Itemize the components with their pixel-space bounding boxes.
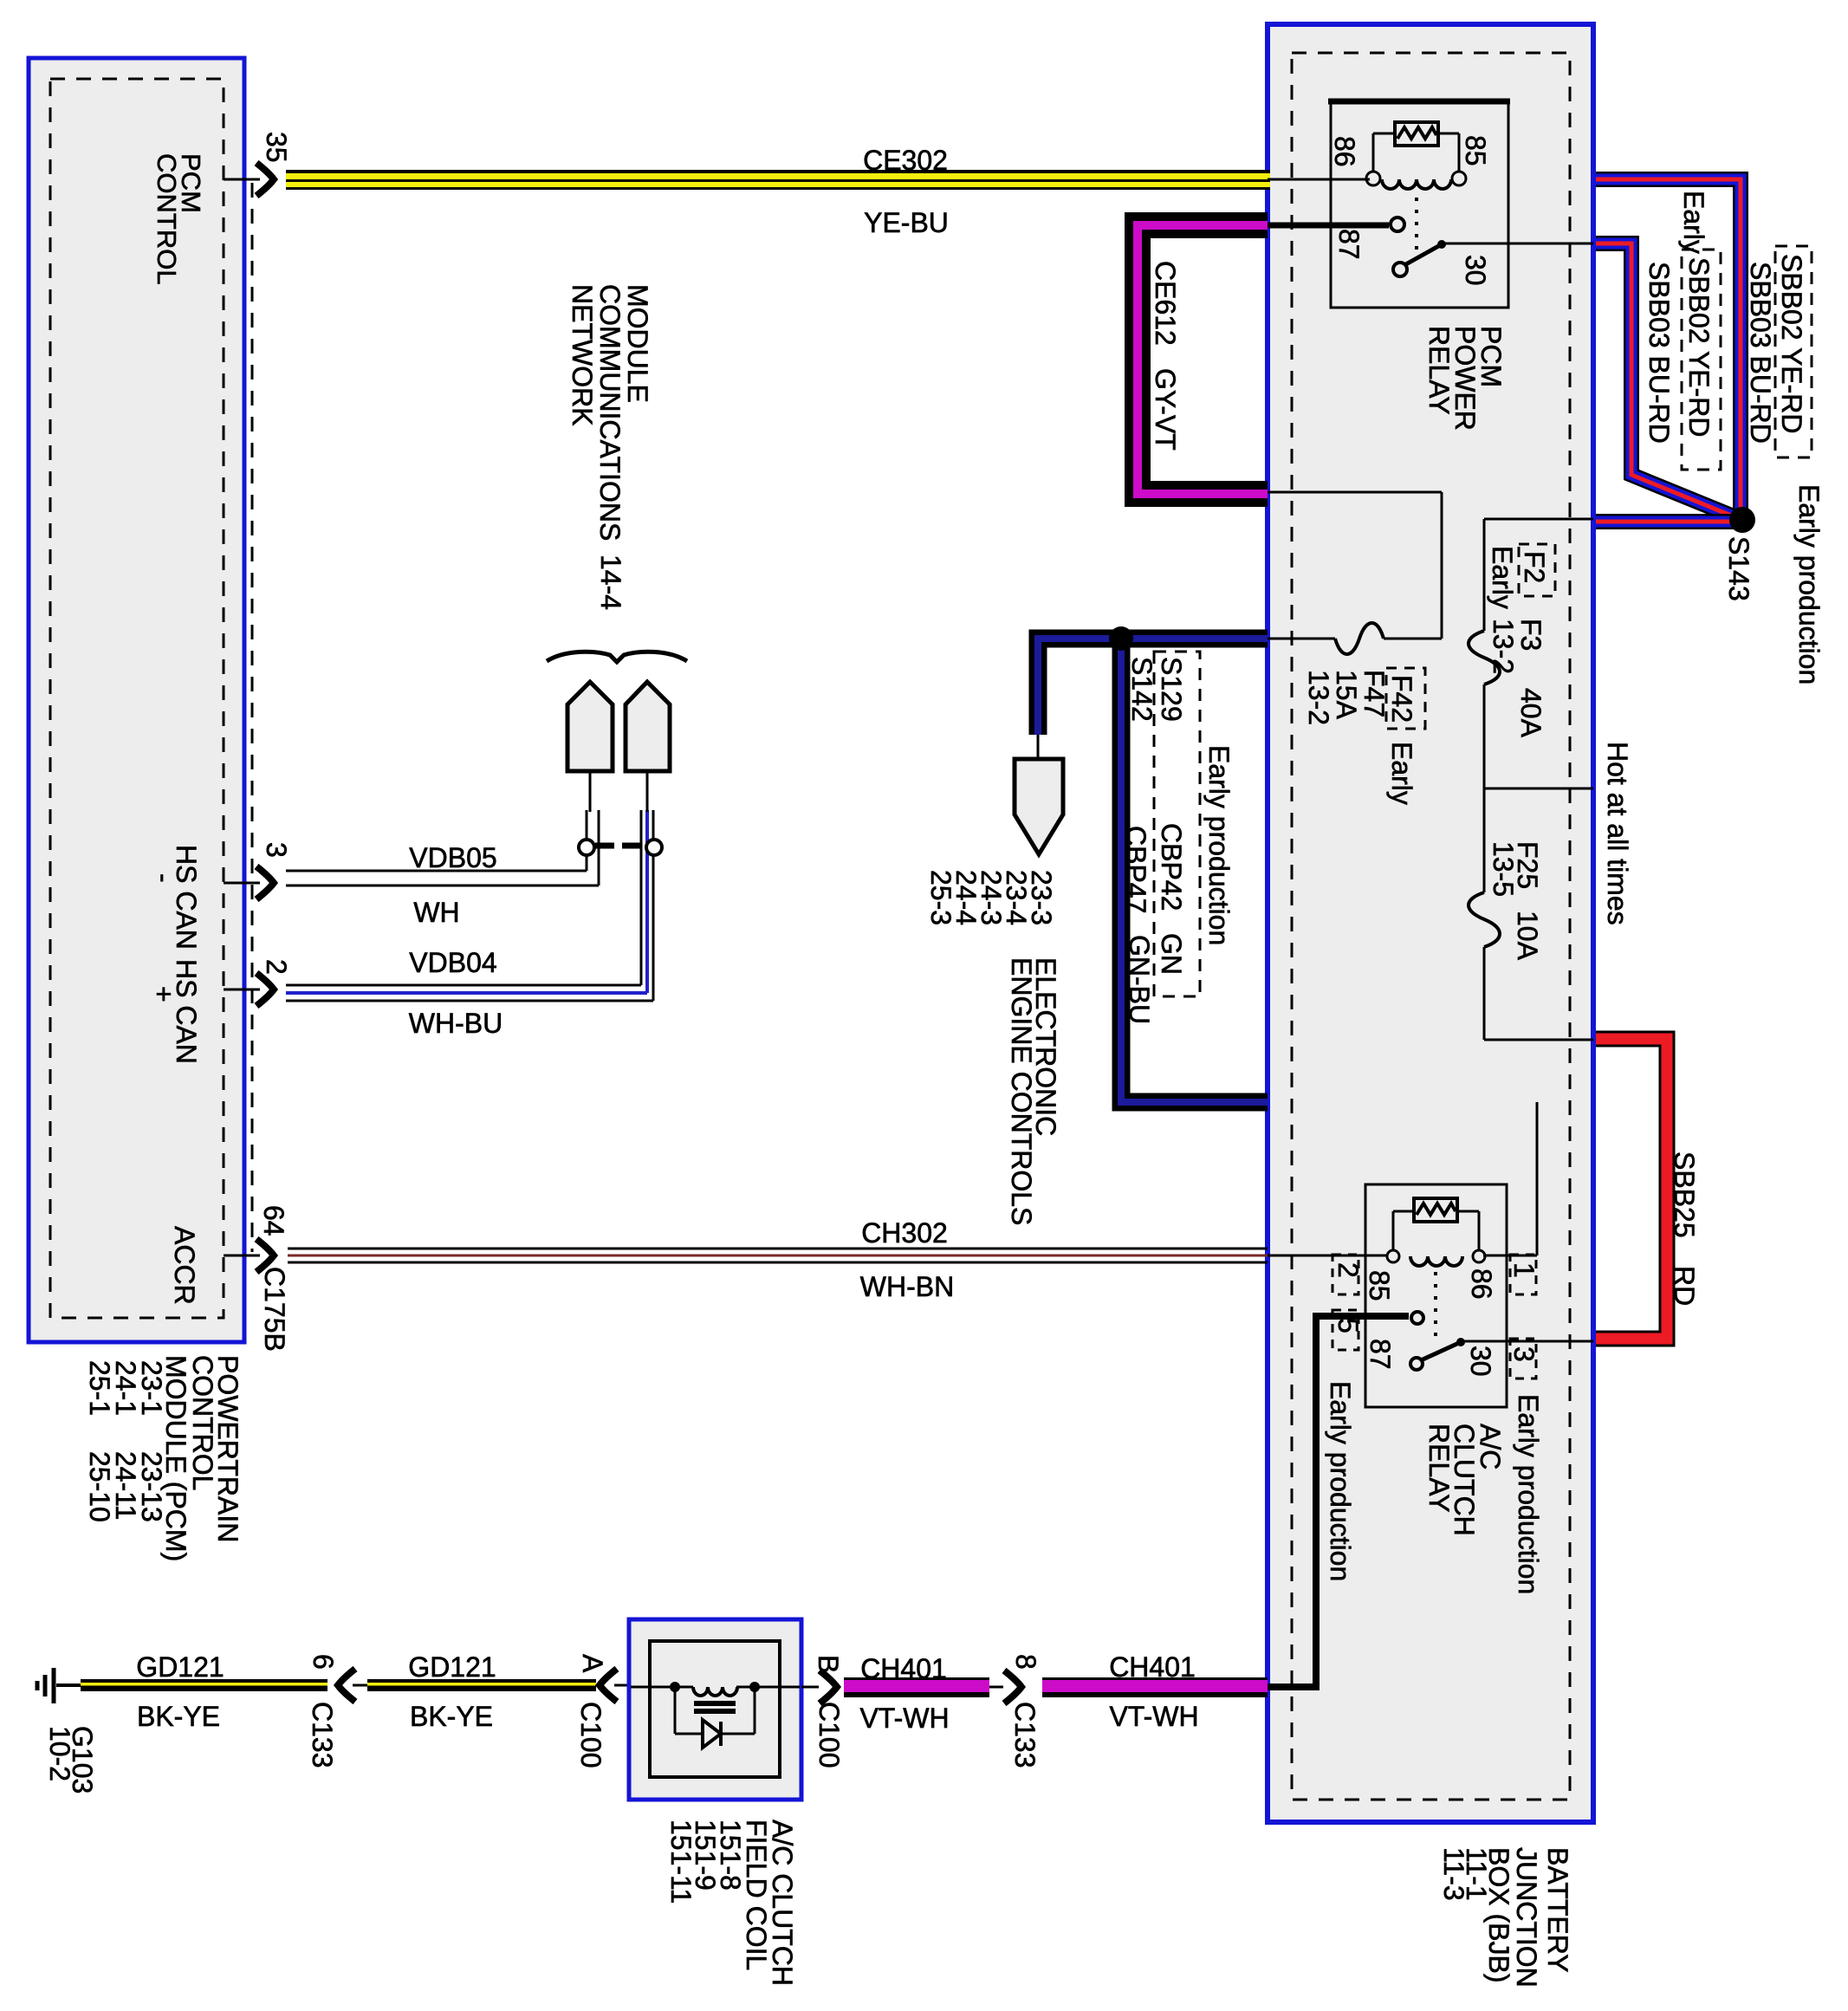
- svg-text:NETWORK: NETWORK: [567, 284, 598, 426]
- svg-text:F3: F3: [1515, 619, 1546, 651]
- fuse F3 to bus line: [1484, 788, 1593, 790]
- svg-text:86: 86: [1329, 136, 1360, 167]
- svg-text:Early production: Early production: [1325, 1381, 1356, 1581]
- svg-text:C100: C100: [575, 1702, 606, 1768]
- relay switch blade: [1393, 263, 1407, 276]
- module communications network dashed boundary: [251, 183, 254, 1252]
- labels F2 F3 40A 13-2: [1519, 544, 1555, 596]
- svg-text:87: 87: [1365, 1339, 1396, 1370]
- svg-text:2: 2: [1333, 1262, 1364, 1278]
- AC relay pin 87 terminal: [1411, 1312, 1423, 1324]
- battery junction box BJB: [1268, 24, 1593, 1822]
- connector C100 pin A arrow: [600, 1669, 617, 1702]
- wire CH302 WH-BN: [288, 1248, 1268, 1250]
- wire VDB04 WH-BU triple: [286, 984, 641, 987]
- svg-text:Hot at all times: Hot at all times: [1602, 742, 1633, 925]
- wire CBP47 to pigtail: [1038, 639, 1121, 735]
- wire SBB02/SBB03 lower (pin 30): [1596, 243, 1735, 517]
- svg-text:5: 5: [1333, 1318, 1364, 1333]
- wire CBP47 GN-BU into BJB: [1121, 630, 1268, 648]
- pin 3 connector arrow: [256, 866, 274, 899]
- diode loop wires: [674, 1687, 677, 1734]
- svg-text:13-2: 13-2: [1303, 670, 1334, 725]
- labels F42 F47 15A 13-2: [1386, 668, 1425, 729]
- svg-text:C133: C133: [1009, 1702, 1041, 1768]
- svg-text:RD: RD: [1669, 1266, 1700, 1306]
- svg-text:GN: GN: [1156, 933, 1187, 975]
- svg-text:CONTROL: CONTROL: [152, 153, 182, 285]
- wire SBB02/SBB03 upper (coil feed): [1596, 179, 1741, 513]
- svg-text:CE302: CE302: [863, 145, 948, 176]
- svg-text:SBB02 YE-RD: SBB02 YE-RD: [1776, 254, 1807, 434]
- svg-text:S142: S142: [1126, 657, 1157, 722]
- wire from splice into BJB: [1596, 514, 1740, 529]
- svg-text:BK-YE: BK-YE: [137, 1701, 220, 1732]
- pigtail connector (engine controls): [1037, 735, 1040, 759]
- svg-text:SBB03 BU-RD: SBB03 BU-RD: [1644, 262, 1675, 444]
- fuse F25 output line: [1484, 1039, 1593, 1041]
- svg-text:Early: Early: [1487, 546, 1518, 609]
- inline connector symbol: [595, 843, 645, 849]
- svg-text:SBB02 YE-RD: SBB02 YE-RD: [1683, 257, 1715, 438]
- AC relay coil U2: [1387, 1250, 1399, 1262]
- PCM inner dashed boundary: [50, 79, 224, 1318]
- labels SBB02 YE-RD boxed (wire1): [1775, 246, 1812, 457]
- svg-text:Early production: Early production: [1203, 745, 1235, 945]
- svg-text:10-2: 10-2: [44, 1726, 75, 1781]
- wire CH401 VT-WH (BJB side): [1042, 1677, 1268, 1697]
- fuse F25 element: [1483, 788, 1486, 892]
- svg-text:Early: Early: [1678, 191, 1709, 254]
- svg-text:CH302: CH302: [861, 1217, 948, 1249]
- AC relay pin 3 label: [1510, 1339, 1536, 1379]
- svg-text:RELAY: RELAY: [1423, 326, 1455, 415]
- svg-text:64: 64: [258, 1205, 289, 1236]
- svg-text:JUNCTION: JUNCTION: [1511, 1847, 1542, 1988]
- svg-text:87: 87: [1333, 229, 1365, 260]
- svg-text:B: B: [813, 1655, 844, 1673]
- twisted pair brace: [547, 652, 687, 662]
- wire GD121 BK-YE (ground side): [81, 1679, 327, 1691]
- relay suppression resistor: [1372, 133, 1375, 172]
- relay armature dotted link: [1415, 198, 1418, 250]
- splice S143: [1729, 507, 1755, 533]
- PCM power relay box: [1331, 101, 1508, 308]
- field coil feed line: [631, 1686, 693, 1689]
- pin 2 stub wire: [224, 989, 260, 991]
- wire GD121 BK-YE (coil side): [367, 1679, 596, 1691]
- svg-text:151-11: 151-11: [665, 1820, 697, 1904]
- AC relay suppression resistor: [1392, 1211, 1395, 1250]
- svg-text:25-3: 25-3: [925, 870, 956, 925]
- svg-text:3: 3: [261, 842, 292, 858]
- svg-text:-: -: [148, 873, 179, 883]
- diode D1: [703, 1720, 721, 1748]
- svg-text:F47: F47: [1358, 670, 1390, 717]
- svg-text:HS CAN: HS CAN: [171, 845, 202, 950]
- relay pin 30 wire: [1442, 243, 1593, 245]
- svg-text:2: 2: [261, 959, 292, 975]
- AC clutch relay box: [1365, 1184, 1507, 1407]
- connector C133 pin 8 arrow: [989, 1686, 1003, 1689]
- svg-text:GN-BU: GN-BU: [1124, 935, 1155, 1024]
- pin 35 stub wire: [224, 178, 260, 181]
- pin 2 connector arrow: [256, 973, 274, 1006]
- svg-text:CH401: CH401: [1109, 1651, 1196, 1683]
- svg-text:C133: C133: [307, 1702, 338, 1768]
- early production dashed box: [1154, 652, 1200, 996]
- svg-text:40A: 40A: [1515, 688, 1546, 738]
- svg-text:A: A: [577, 1654, 608, 1673]
- svg-text:F2: F2: [1519, 551, 1550, 583]
- svg-text:WH-BU: WH-BU: [409, 1008, 503, 1039]
- AC relay armature dotted link: [1434, 1272, 1437, 1339]
- svg-text:86: 86: [1466, 1268, 1497, 1300]
- field coil junction dots: [670, 1682, 680, 1692]
- svg-text:VT-WH: VT-WH: [1109, 1701, 1198, 1732]
- svg-text:HS CAN: HS CAN: [171, 959, 202, 1064]
- svg-text:VDB04: VDB04: [409, 947, 496, 978]
- relay pin 87 terminal: [1391, 217, 1404, 231]
- fuse F47 wire with element: [1384, 638, 1442, 640]
- wire SBB25 RD: [1596, 1039, 1667, 1339]
- fuse F3 box feed line: [1484, 518, 1593, 521]
- svg-text:SBB03 BU-RD: SBB03 BU-RD: [1745, 262, 1776, 444]
- svg-text:85: 85: [1364, 1270, 1395, 1301]
- AC relay pin 87 down wire: [1313, 1313, 1320, 1690]
- svg-text:CBP47: CBP47: [1120, 826, 1151, 913]
- AC relay pin 87 wire: [1316, 1313, 1409, 1320]
- pin 64 connector arrow: [256, 1239, 274, 1272]
- pin 35 connector arrow: [256, 163, 274, 196]
- relay coil U1: [1366, 172, 1380, 185]
- svg-text:Early production: Early production: [1513, 1394, 1544, 1594]
- svg-text:Early: Early: [1386, 742, 1417, 805]
- field coil inner box: [650, 1641, 780, 1777]
- svg-text:RELAY: RELAY: [1423, 1424, 1455, 1513]
- connector pigtail right: [626, 682, 670, 771]
- svg-text:VDB05: VDB05: [409, 842, 496, 873]
- svg-text:3: 3: [1508, 1346, 1540, 1362]
- fuse F3 element: [1483, 519, 1486, 631]
- AC relay coil feed from CH302: [1268, 1255, 1387, 1257]
- svg-text:10A: 10A: [1512, 911, 1543, 961]
- svg-text:15A: 15A: [1331, 670, 1362, 720]
- svg-text:14-4: 14-4: [595, 555, 626, 610]
- AC relay pin 1 label: [1510, 1255, 1536, 1294]
- pin 3 stub wire: [224, 882, 260, 885]
- svg-text:C175B: C175B: [259, 1267, 290, 1352]
- svg-text:8: 8: [1010, 1654, 1041, 1670]
- ground G103: [56, 1683, 82, 1687]
- svg-text:GD121: GD121: [136, 1651, 224, 1683]
- connector C133 pin 6 arrow: [338, 1669, 355, 1702]
- relay pin 87 wire: [1268, 223, 1389, 229]
- svg-text:30: 30: [1465, 1346, 1496, 1377]
- svg-text:COMMUNICATIONS: COMMUNICATIONS: [594, 284, 626, 541]
- svg-text:S143: S143: [1723, 536, 1754, 601]
- svg-text:WH: WH: [413, 897, 459, 928]
- svg-text:35: 35: [261, 132, 292, 163]
- AC clutch field coil box: [629, 1619, 801, 1800]
- svg-text:F42: F42: [1386, 675, 1417, 723]
- svg-text:SBB25: SBB25: [1669, 1151, 1700, 1238]
- svg-text:MODULE: MODULE: [622, 284, 653, 403]
- svg-text:GD121: GD121: [408, 1651, 496, 1683]
- svg-text:1: 1: [1508, 1262, 1540, 1278]
- connector pigtail left: [567, 682, 613, 771]
- svg-text:YE-BU: YE-BU: [864, 207, 949, 238]
- wire CE302 YE-BU yellow: [286, 170, 1270, 190]
- svg-text:25-1: 25-1: [84, 1360, 115, 1416]
- field coil core bars: [694, 1701, 736, 1706]
- relay coil feed line: [1268, 178, 1370, 181]
- splice S142: [1109, 626, 1133, 651]
- svg-text:25-10: 25-10: [84, 1451, 115, 1522]
- pin 64 stub wire: [224, 1255, 260, 1257]
- svg-text:CE612: CE612: [1150, 261, 1181, 346]
- AC relay switch blade: [1410, 1358, 1423, 1370]
- AC relay pin 2 label: [1333, 1255, 1358, 1294]
- wire CE612 GY-VT magenta loop: [1138, 225, 1268, 494]
- wire VDB05 WH pair: [286, 870, 587, 873]
- connector B arrow: [801, 1686, 819, 1689]
- wire CBP47 down to BJB lower: [1121, 639, 1268, 1102]
- svg-text:85: 85: [1460, 135, 1491, 166]
- svg-text:BK-YE: BK-YE: [410, 1701, 493, 1732]
- svg-text:Early production: Early production: [1793, 484, 1825, 684]
- svg-text:GY-VT: GY-VT: [1150, 368, 1181, 451]
- labels SBB02 YE-RD boxed (wire2): [1682, 250, 1721, 470]
- wire from CE612 to fuse F47: [1268, 491, 1442, 494]
- svg-text:BATTERY: BATTERY: [1542, 1847, 1573, 1973]
- svg-text:6: 6: [308, 1654, 339, 1670]
- AC relay pin 5 label: [1333, 1310, 1358, 1350]
- svg-text:13-5: 13-5: [1488, 841, 1519, 897]
- AC relay coil to navy wire link: [1483, 1255, 1537, 1257]
- svg-text:WH-BN: WH-BN: [860, 1271, 954, 1302]
- svg-text:C100: C100: [814, 1702, 845, 1768]
- field coil inductor L1: [693, 1687, 737, 1696]
- svg-text:CH401: CH401: [860, 1653, 947, 1684]
- BJB inner dashed boundary: [1292, 53, 1570, 1800]
- AC relay pin 30 wire: [1461, 1340, 1593, 1343]
- svg-text:S129: S129: [1156, 657, 1187, 722]
- svg-text:13-2: 13-2: [1488, 619, 1519, 674]
- svg-text:VT-WH: VT-WH: [859, 1703, 949, 1734]
- svg-text:CBP42: CBP42: [1156, 823, 1187, 911]
- svg-text:30: 30: [1460, 255, 1491, 286]
- PCM module box: [29, 58, 244, 1342]
- svg-text:ENGINE CONTROLS: ENGINE CONTROLS: [1006, 957, 1037, 1225]
- svg-text:11-3: 11-3: [1438, 1847, 1469, 1901]
- svg-text:+: +: [148, 986, 179, 1002]
- svg-text:ACCR: ACCR: [169, 1226, 200, 1305]
- wire CH401 VT-WH (coil side): [844, 1677, 989, 1697]
